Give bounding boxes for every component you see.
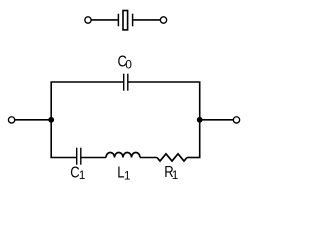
node left junction [48, 117, 54, 123]
wire [140, 157, 157, 159]
svg-text:0: 0 [125, 57, 132, 71]
crystal X1 left plate [117, 14, 119, 27]
crystal X1 right plate [132, 14, 134, 27]
capacitor C0 right plate [127, 74, 129, 91]
wire [133, 19, 160, 21]
wire [82, 157, 107, 159]
wire left rail [50, 82, 52, 158]
capacitor C1 right plate [80, 148, 82, 165]
wire bottom rail right [187, 157, 201, 159]
terminal (left) [8, 117, 14, 123]
svg-text:1: 1 [172, 170, 178, 182]
wire [200, 119, 234, 121]
wire top rail left [50, 81, 123, 83]
terminal (right) [233, 117, 239, 123]
capacitor C0 left plate [123, 74, 125, 91]
wire [91, 19, 118, 21]
wire bottom rail left [50, 157, 76, 159]
wire right rail [199, 82, 201, 158]
svg-text:1: 1 [124, 170, 130, 182]
svg-text:1: 1 [79, 170, 85, 182]
terminal (crystal left) [85, 17, 91, 23]
terminal (crystal right) [160, 17, 166, 23]
crystal X1 body [123, 11, 128, 30]
inductor L1 [106, 153, 140, 158]
wire [15, 119, 52, 121]
resistor R1 [157, 154, 187, 161]
capacitor C1 left plate [76, 148, 78, 165]
wire top rail right [128, 81, 200, 83]
node right junction [197, 117, 203, 123]
